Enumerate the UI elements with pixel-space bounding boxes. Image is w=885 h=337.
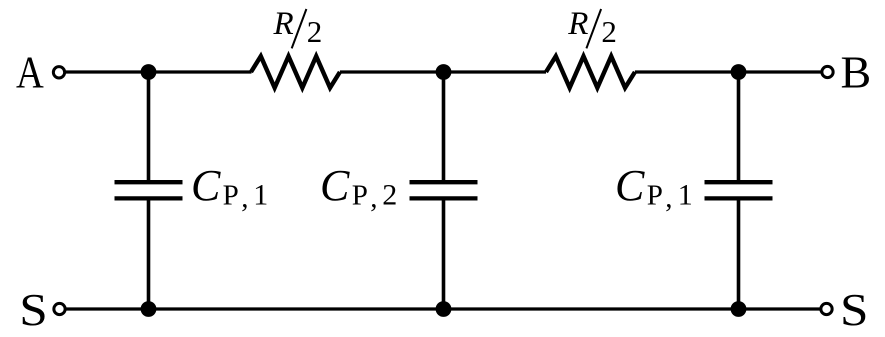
wire: [442, 200, 446, 309]
wire: [147, 200, 151, 309]
svg-text:A: A: [16, 47, 44, 98]
svg-text:2: 2: [307, 14, 323, 49]
wire: [65, 70, 252, 73]
svg-text:2: 2: [382, 179, 397, 212]
terminal S (right): [821, 303, 832, 314]
junction: [731, 64, 747, 80]
svg-text:1: 1: [253, 179, 268, 212]
svg-text:S: S: [19, 284, 48, 335]
resistor R/2 (right) value label: [567, 6, 617, 49]
junction: [436, 64, 452, 80]
terminal A: [53, 67, 64, 78]
resistor R/2 (left) value label: [273, 6, 323, 49]
junction: [731, 301, 747, 317]
svg-text:,: ,: [665, 182, 672, 214]
junction: [436, 301, 452, 317]
wire: [340, 70, 546, 73]
capacitor C_P,1 (right): [705, 182, 773, 198]
svg-text:R: R: [273, 6, 294, 42]
svg-text:C: C: [615, 161, 645, 210]
svg-text:C: C: [191, 161, 221, 210]
svg-text:P: P: [223, 180, 239, 212]
capacitor C_P,1 (right) value label: [615, 161, 693, 214]
resistor R/2 (left): [251, 56, 340, 88]
svg-text:C: C: [320, 161, 350, 210]
svg-text:,: ,: [241, 182, 248, 214]
wire: [147, 72, 151, 180]
wire: [635, 70, 821, 73]
svg-text:,: ,: [370, 182, 377, 214]
svg-text:B: B: [841, 47, 872, 98]
svg-text:P: P: [647, 180, 663, 212]
wire: [737, 72, 741, 180]
resistor R/2 (right): [546, 56, 635, 88]
terminal B: [822, 66, 833, 77]
svg-text:1: 1: [678, 179, 693, 212]
svg-text:2: 2: [601, 14, 617, 49]
svg-text:R: R: [567, 6, 588, 42]
svg-text:P: P: [352, 180, 368, 212]
junction: [141, 64, 157, 80]
capacitor C_P,1 (left) value label: [191, 161, 268, 214]
wire: [65, 307, 820, 310]
terminal S (left): [54, 303, 65, 314]
capacitor C_P,2 (middle): [410, 182, 478, 198]
capacitor C_P,2 (middle) value label: [320, 161, 397, 214]
svg-text:S: S: [840, 284, 869, 335]
capacitor C_P,1 (left): [115, 182, 183, 198]
wire: [442, 72, 446, 180]
wire: [737, 200, 741, 309]
junction: [141, 301, 157, 317]
